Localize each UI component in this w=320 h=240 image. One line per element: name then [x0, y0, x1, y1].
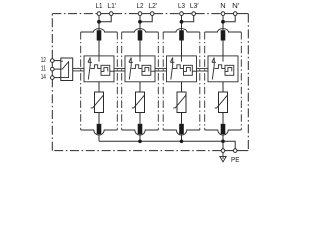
- wire L2 plug to disconnector box: [139, 41, 141, 56]
- varistor MOV4 (N path): [215, 92, 228, 113]
- svg-text:PE: PE: [231, 155, 239, 164]
- module N bottom plug contact: [221, 124, 226, 134]
- label 12: [41, 55, 46, 64]
- disconnector/indicator unit L1 (box U1): [84, 56, 114, 82]
- terminal L1: [97, 12, 101, 16]
- wire L3 plug to PE bus: [181, 134, 183, 141]
- terminal L3: [180, 12, 184, 16]
- signal link L3-N: [197, 68, 209, 71]
- label 14: [41, 72, 46, 81]
- varistor MOV1 (L1 path): [91, 92, 104, 113]
- module L3 outline (plug-in arrester): [163, 29, 200, 135]
- wire PE bus to earth terminal: [222, 141, 224, 149]
- varistor MOV3 (L3 path): [173, 92, 186, 113]
- junction L2: [138, 20, 142, 24]
- disconnector/indicator unit L2 (box U2): [125, 56, 155, 82]
- module L1 bottom plug contact: [97, 124, 102, 134]
- junction L1: [97, 20, 101, 24]
- svg-text:L3: L3: [178, 1, 185, 10]
- junction PE bus N: [221, 140, 225, 144]
- terminal PE: [233, 149, 237, 153]
- wire N plug to disconnector box: [222, 41, 224, 56]
- module L3 bottom plug contact: [179, 124, 184, 134]
- svg-text:L1: L1: [96, 1, 103, 10]
- wire L1 down: [98, 15, 100, 30]
- earth symbol: [220, 152, 226, 162]
- signal link contact box to module L1: [73, 68, 84, 71]
- terminal L3&#180;: [192, 12, 196, 16]
- svg-text:L2: L2: [137, 1, 144, 10]
- junction PE bus L3: [180, 140, 184, 144]
- wire L3 varistor to bottom plug: [181, 113, 183, 124]
- PE bus: [99, 141, 235, 149]
- module L2 top plug contact: [138, 30, 143, 40]
- label PE: [231, 155, 239, 164]
- wire L2 down: [139, 15, 141, 30]
- terminal L2&#180;: [150, 12, 154, 16]
- terminal earth: [221, 149, 225, 153]
- wire L3 down: [181, 15, 183, 30]
- wire L3 plug to disconnector box: [181, 41, 183, 56]
- wire N down: [222, 15, 224, 30]
- wire L1 box to varistor: [98, 82, 100, 92]
- changeover contact K1 (remote signalling 12/11/14): [61, 58, 73, 81]
- svg-text:14: 14: [41, 72, 46, 81]
- wire L1&#180; to junction: [99, 15, 111, 21]
- varistor MOV2 (L2 path): [132, 92, 145, 113]
- wire N box to varistor: [222, 82, 224, 92]
- label L3: [178, 1, 185, 10]
- svg-text:N′: N′: [232, 1, 240, 10]
- module N top plug contact: [221, 30, 226, 40]
- wire L1 plug to PE bus: [98, 134, 100, 141]
- terminal L1&#180;: [109, 12, 113, 16]
- disconnector/indicator unit N (box U4): [208, 56, 238, 82]
- wire L1 plug to disconnector box: [98, 41, 100, 56]
- junction L3: [180, 20, 184, 24]
- svg-text:L1′: L1′: [107, 1, 116, 10]
- junction PE bus L2: [138, 140, 142, 144]
- label L1&#180;: [107, 1, 116, 10]
- device boundary (dash-dot border): [52, 14, 248, 151]
- wire terminal 12 to contact box: [54, 60, 61, 62]
- module L2 outline (plug-in arrester): [122, 29, 159, 135]
- wire N plug to PE bus: [222, 134, 224, 141]
- module L1 outline (plug-in arrester): [81, 29, 118, 135]
- label N: [220, 1, 225, 10]
- wire L2 varistor to bottom plug: [139, 113, 141, 124]
- label L2&#180;: [148, 1, 157, 10]
- wire terminal 14 to contact box: [54, 77, 61, 79]
- disconnector/indicator unit L3 (box U3): [167, 56, 197, 82]
- signal link L2-L3: [155, 68, 167, 71]
- wire L2&#180; to junction: [140, 15, 152, 21]
- terminal L2: [138, 12, 142, 16]
- module L1 top plug contact: [97, 30, 102, 40]
- module L2 bottom plug contact: [138, 124, 143, 134]
- wire L2 plug to PE bus: [139, 134, 141, 141]
- label L1: [96, 1, 103, 10]
- wire L3 box to varistor: [181, 82, 183, 92]
- wire L3&#180; to junction: [182, 15, 194, 21]
- wire terminal 11 to contact box: [54, 68, 61, 70]
- wire L1 varistor to bottom plug: [98, 113, 100, 124]
- label L3&#180;: [190, 1, 199, 10]
- wire N&#180; to junction: [223, 15, 235, 21]
- terminal N&#180;: [233, 12, 237, 16]
- terminal 12: [51, 59, 55, 63]
- svg-text:L3′: L3′: [190, 1, 199, 10]
- terminal 11: [51, 67, 55, 71]
- terminal 14: [51, 76, 55, 80]
- junction N: [221, 20, 225, 24]
- label 11: [41, 64, 46, 73]
- wire L2 box to varistor: [139, 82, 141, 92]
- label L2: [137, 1, 144, 10]
- svg-text:N: N: [220, 1, 225, 10]
- signal link L1-L2: [114, 68, 125, 71]
- wire N varistor to bottom plug: [222, 113, 224, 124]
- label N&#180;: [232, 1, 240, 10]
- svg-text:L2′: L2′: [148, 1, 157, 10]
- module N outline (plug-in arrester): [205, 29, 242, 135]
- terminal N: [221, 12, 225, 16]
- module L3 top plug contact: [179, 30, 184, 40]
